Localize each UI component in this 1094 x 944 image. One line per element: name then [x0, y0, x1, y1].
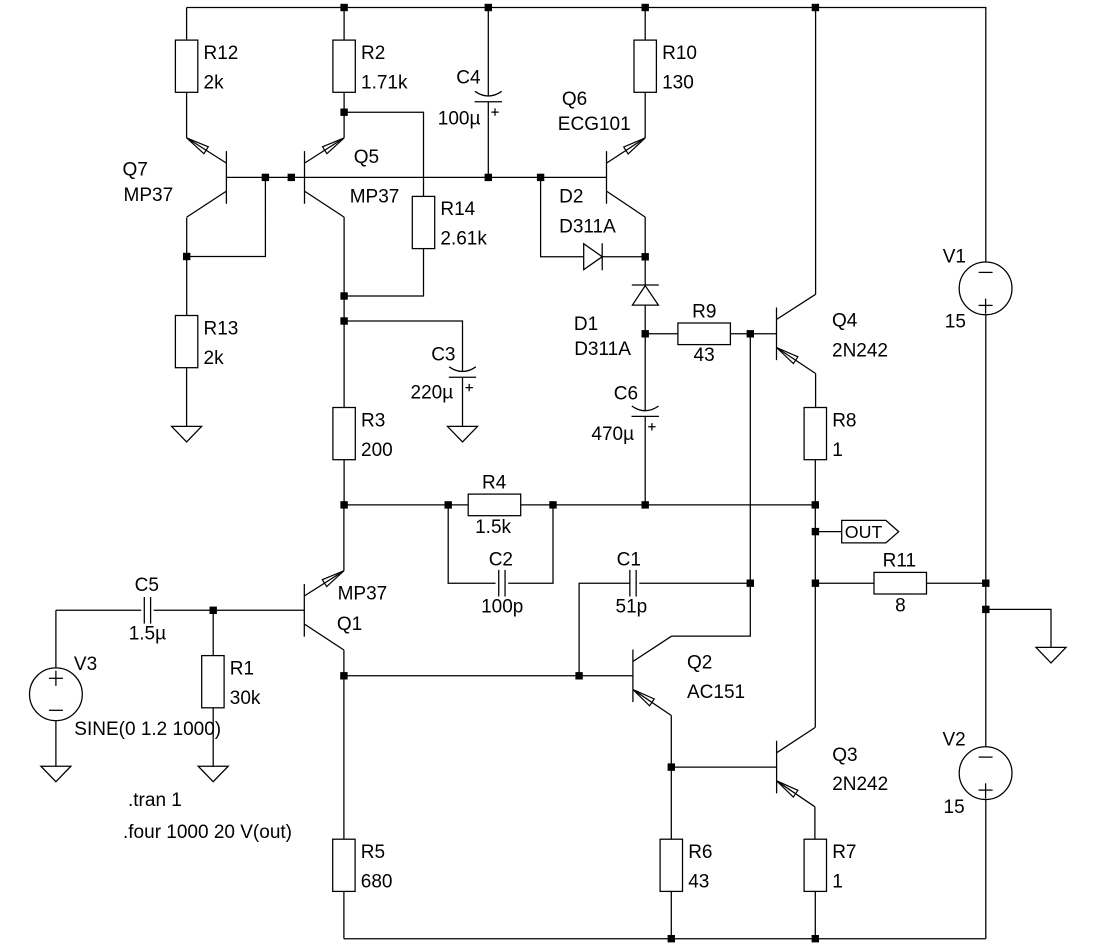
svg-text:C2: C2: [489, 550, 513, 571]
svg-text:MP37: MP37: [124, 185, 174, 206]
svg-text:.tran 1: .tran 1: [128, 790, 182, 811]
svg-text:SINE(0 1.2 1000): SINE(0 1.2 1000): [74, 719, 221, 740]
svg-text:1: 1: [832, 872, 843, 893]
svg-text:.four 1000 20 V(out): .four 1000 20 V(out): [123, 822, 292, 843]
svg-text:R13: R13: [204, 318, 239, 339]
svg-text:R8: R8: [832, 410, 856, 431]
svg-text:D1: D1: [574, 314, 598, 335]
svg-text:43: 43: [688, 872, 709, 893]
svg-text:R6: R6: [688, 842, 712, 863]
svg-text:2k: 2k: [204, 72, 225, 93]
svg-text:Q4: Q4: [832, 311, 858, 332]
svg-text:V3: V3: [74, 654, 97, 675]
svg-text:C3: C3: [431, 345, 455, 366]
svg-text:AC151: AC151: [687, 682, 745, 703]
svg-text:51p: 51p: [616, 596, 648, 617]
svg-text:680: 680: [361, 872, 393, 893]
svg-text:Q1: Q1: [337, 614, 362, 635]
svg-text:200: 200: [361, 440, 393, 461]
svg-text:220µ: 220µ: [411, 383, 454, 404]
svg-text:R4: R4: [482, 472, 507, 493]
svg-text:R3: R3: [361, 410, 385, 431]
svg-text:R5: R5: [361, 842, 385, 863]
svg-text:R11: R11: [883, 551, 916, 572]
svg-text:R14: R14: [440, 199, 475, 220]
svg-text:D311A: D311A: [574, 339, 631, 360]
svg-text:C6: C6: [614, 384, 638, 405]
svg-text:R2: R2: [361, 43, 385, 64]
svg-text:2N242: 2N242: [832, 774, 888, 795]
svg-text:2N242: 2N242: [832, 341, 888, 362]
svg-text:ECG101: ECG101: [558, 114, 631, 135]
svg-text:15: 15: [945, 312, 966, 333]
svg-text:30k: 30k: [230, 688, 261, 709]
svg-text:2.61k: 2.61k: [440, 229, 487, 250]
svg-text:OUT: OUT: [845, 522, 883, 542]
svg-text:100µ: 100µ: [438, 108, 481, 129]
svg-text:D2: D2: [559, 186, 583, 207]
svg-text:MP37: MP37: [350, 186, 400, 207]
svg-text:Q3: Q3: [832, 745, 857, 766]
svg-text:V2: V2: [943, 729, 966, 750]
svg-text:Q2: Q2: [687, 653, 712, 674]
svg-text:100p: 100p: [481, 596, 523, 617]
svg-text:R10: R10: [662, 43, 697, 64]
svg-text:R9: R9: [692, 302, 716, 323]
svg-text:C1: C1: [617, 550, 641, 571]
svg-text:R7: R7: [832, 842, 856, 863]
svg-text:R1: R1: [230, 658, 254, 679]
svg-text:V1: V1: [943, 247, 966, 268]
svg-text:130: 130: [662, 72, 694, 93]
svg-text:Q5: Q5: [354, 147, 379, 168]
svg-text:8: 8: [895, 596, 906, 617]
svg-text:Q6: Q6: [562, 89, 587, 110]
svg-text:C4: C4: [456, 68, 481, 89]
svg-text:1.5k: 1.5k: [475, 517, 511, 538]
svg-text:470µ: 470µ: [591, 424, 634, 445]
svg-text:1.5µ: 1.5µ: [129, 623, 166, 644]
svg-text:43: 43: [694, 345, 715, 366]
svg-text:2k: 2k: [204, 348, 225, 369]
svg-text:1.71k: 1.71k: [361, 72, 408, 93]
svg-text:MP37: MP37: [338, 584, 388, 605]
svg-text:R12: R12: [204, 43, 239, 64]
svg-text:Q7: Q7: [123, 160, 148, 181]
svg-text:1: 1: [832, 440, 843, 461]
svg-text:15: 15: [944, 797, 965, 818]
svg-text:D311A: D311A: [559, 216, 616, 237]
svg-text:C5: C5: [135, 575, 159, 596]
